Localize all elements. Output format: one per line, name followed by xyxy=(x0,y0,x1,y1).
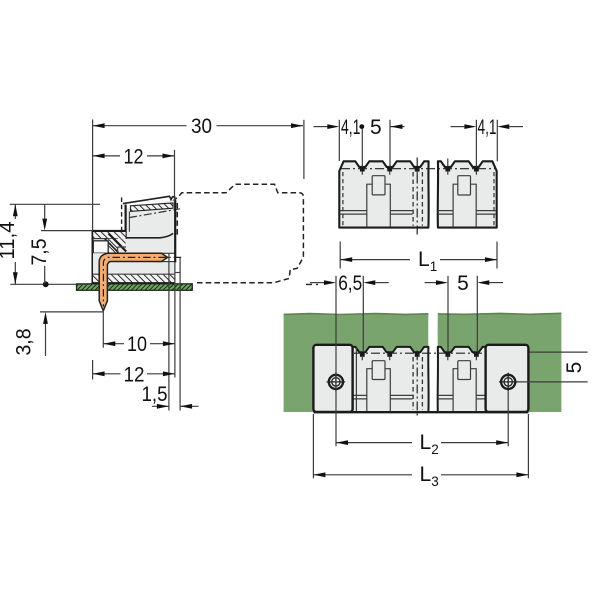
step lines xyxy=(353,395,485,399)
flange block right xyxy=(486,345,529,412)
body seam line xyxy=(126,233,173,237)
svg-text:11,4: 11,4 xyxy=(0,221,19,259)
node dot baseline xyxy=(43,281,49,287)
body bottom edge xyxy=(92,282,175,284)
pin row centerline dash-dot xyxy=(354,352,484,354)
svg-text:6,5: 6,5 xyxy=(338,272,362,295)
plug body top view right part xyxy=(438,161,497,227)
dim 10 xyxy=(103,343,175,345)
pcb view body left part xyxy=(353,347,429,412)
green pcb right part xyxy=(438,313,562,412)
left block lower gray xyxy=(93,253,108,274)
keying tower left xyxy=(367,176,391,227)
svg-text:3,8: 3,8 xyxy=(13,329,36,356)
pcb dashed continuation line xyxy=(306,283,318,285)
break dashed lines xyxy=(412,172,414,226)
keying tower right xyxy=(453,176,476,227)
ext line 12 right top xyxy=(174,150,176,202)
dim 5 top xyxy=(390,126,404,128)
body right edge xyxy=(174,200,176,263)
ext line notch4 pcb xyxy=(447,276,449,352)
break dashed lines xyxy=(412,357,414,410)
ext line notch2 xyxy=(389,120,391,167)
ext line plug left edge xyxy=(338,120,340,161)
dim 12 top xyxy=(93,155,175,157)
step bold diagonals xyxy=(109,234,127,252)
body left inner edge xyxy=(355,348,357,412)
left block hatch right of hole xyxy=(108,239,125,254)
pin ticks xyxy=(362,159,476,175)
dim 30 xyxy=(93,125,303,127)
flange block left xyxy=(313,345,352,412)
latch plate top line xyxy=(123,196,176,203)
step lines xyxy=(118,247,126,253)
ext line 1,5 right xyxy=(179,257,181,410)
latch plate hatched bar xyxy=(131,203,174,211)
dim point dot xyxy=(359,124,364,129)
inner wall dashed left xyxy=(342,172,344,226)
dim 4,1 right xyxy=(451,126,465,128)
latch hidden edge dashed xyxy=(121,198,123,232)
ext line pin center xyxy=(102,312,104,348)
dim 7,5 xyxy=(44,204,46,284)
ext line notch5 pcb xyxy=(476,276,478,352)
green pcb left part xyxy=(284,314,429,413)
housing upper body xyxy=(126,201,175,238)
ext line body right xyxy=(174,262,176,377)
upper body left edge xyxy=(124,205,126,239)
ext line screw left xyxy=(335,276,337,447)
ext line block right xyxy=(527,414,529,478)
step lines xyxy=(340,211,495,215)
green pcb bar xyxy=(77,284,193,291)
ext line screw right xyxy=(507,391,509,446)
ext line block left xyxy=(312,414,314,478)
left block top hatch band xyxy=(93,232,125,239)
svg-text:1,5: 1,5 xyxy=(142,383,168,406)
pin centerline dash-dot xyxy=(103,257,181,306)
ext line 7,5 top xyxy=(41,230,93,232)
dim 4,1 left xyxy=(314,126,328,128)
svg-text:5: 5 xyxy=(457,272,469,295)
svg-text:12: 12 xyxy=(124,145,144,168)
pin squares xyxy=(360,167,479,172)
ext line pin end xyxy=(168,253,170,410)
screw symbol left xyxy=(327,373,346,392)
svg-text:30: 30 xyxy=(191,115,212,138)
solder pin (bent, orange) xyxy=(99,253,167,310)
ext line 30 right xyxy=(303,120,305,179)
left block left edge xyxy=(92,230,94,284)
svg-text:10: 10 xyxy=(127,333,147,356)
ext line body left xyxy=(92,120,94,231)
ext line 3,8 pin tip xyxy=(40,311,103,313)
ext line notch5 xyxy=(475,120,477,167)
svg-text:4,1: 4,1 xyxy=(478,116,497,139)
dim L3 xyxy=(313,474,528,476)
keying tower right xyxy=(453,361,476,412)
break centerline dash-dot xyxy=(416,351,418,418)
pin row centerline dash-dot xyxy=(341,168,496,170)
inner wall dashed right xyxy=(493,172,495,226)
female connector dashed outline xyxy=(173,184,304,282)
ext line plug right edge xyxy=(496,120,498,162)
contact cavity slot xyxy=(156,253,175,261)
bottom hatch band xyxy=(93,274,175,283)
svg-text:5: 5 xyxy=(370,116,382,139)
svg-text:7,5: 7,5 xyxy=(28,239,51,266)
ext line 11,4 top xyxy=(10,203,100,205)
pin squares xyxy=(360,352,479,357)
plug body top view left part xyxy=(339,161,428,227)
pcb view body right part xyxy=(438,347,486,412)
ext line body left bottom xyxy=(92,360,94,380)
dim 5 pcb top xyxy=(425,282,436,284)
screw symbol right xyxy=(499,373,518,392)
svg-text:5: 5 xyxy=(563,362,586,374)
dim L1 xyxy=(340,242,497,269)
dim L2 xyxy=(336,442,508,444)
latch lever dash-dot line xyxy=(129,209,180,218)
left block top edge xyxy=(92,230,126,232)
break centerline dash-dot xyxy=(416,158,418,237)
pin entry hole xyxy=(93,241,108,253)
dim 12 bottom xyxy=(93,373,175,375)
dim 3,8 xyxy=(45,323,47,356)
dim 6,5 xyxy=(310,282,324,284)
upper body inner line xyxy=(128,212,130,232)
pin ticks xyxy=(362,357,476,361)
dim 1,5 xyxy=(152,405,199,407)
svg-text:4,1: 4,1 xyxy=(341,116,361,139)
keying tower left xyxy=(367,361,391,412)
ext line notch1 xyxy=(361,127,363,167)
dim 5 right vertical xyxy=(518,352,588,382)
cavity corner line xyxy=(175,272,180,274)
body bottom edge xyxy=(313,411,528,413)
housing lower body xyxy=(108,238,175,274)
baseline pcb top xyxy=(10,283,90,285)
ext line notch1 pcb xyxy=(362,276,364,352)
dim 11,4 xyxy=(14,204,16,284)
